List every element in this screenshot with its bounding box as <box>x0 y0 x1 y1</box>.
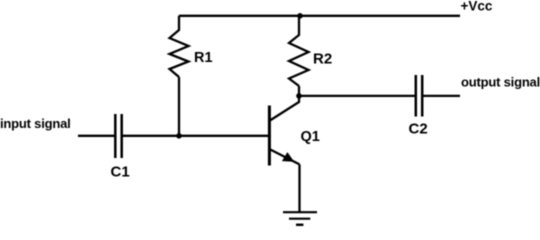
wire C2 to output <box>422 95 460 97</box>
svg-text:C1: C1 <box>111 164 130 181</box>
wire R1 to base node <box>178 77 180 136</box>
junction dot Vcc/R2 <box>297 13 303 19</box>
resistor R2 <box>289 16 309 86</box>
wire Vcc rail <box>179 15 460 17</box>
svg-text:R2: R2 <box>313 51 332 68</box>
svg-text:output signal: output signal <box>461 75 540 90</box>
junction dot collector node <box>296 93 302 99</box>
wire collector to C2 <box>299 95 416 97</box>
svg-text:+Vcc: +Vcc <box>461 0 493 14</box>
svg-text:C2: C2 <box>409 121 428 138</box>
wire C1 to base <box>122 135 269 137</box>
capacitor C1 <box>115 114 121 158</box>
wire input to C1 <box>78 135 115 137</box>
resistor R1 <box>170 16 189 77</box>
ground <box>283 212 317 225</box>
svg-text:input signal: input signal <box>0 116 71 131</box>
svg-text:R1: R1 <box>194 50 213 66</box>
transistor Q1 <box>269 96 299 166</box>
junction dot base node <box>176 133 182 139</box>
capacitor C2 <box>416 75 422 117</box>
wire emitter to ground <box>298 164 300 212</box>
svg-text:Q1: Q1 <box>301 129 320 145</box>
wire R2 to collector node <box>298 86 300 96</box>
